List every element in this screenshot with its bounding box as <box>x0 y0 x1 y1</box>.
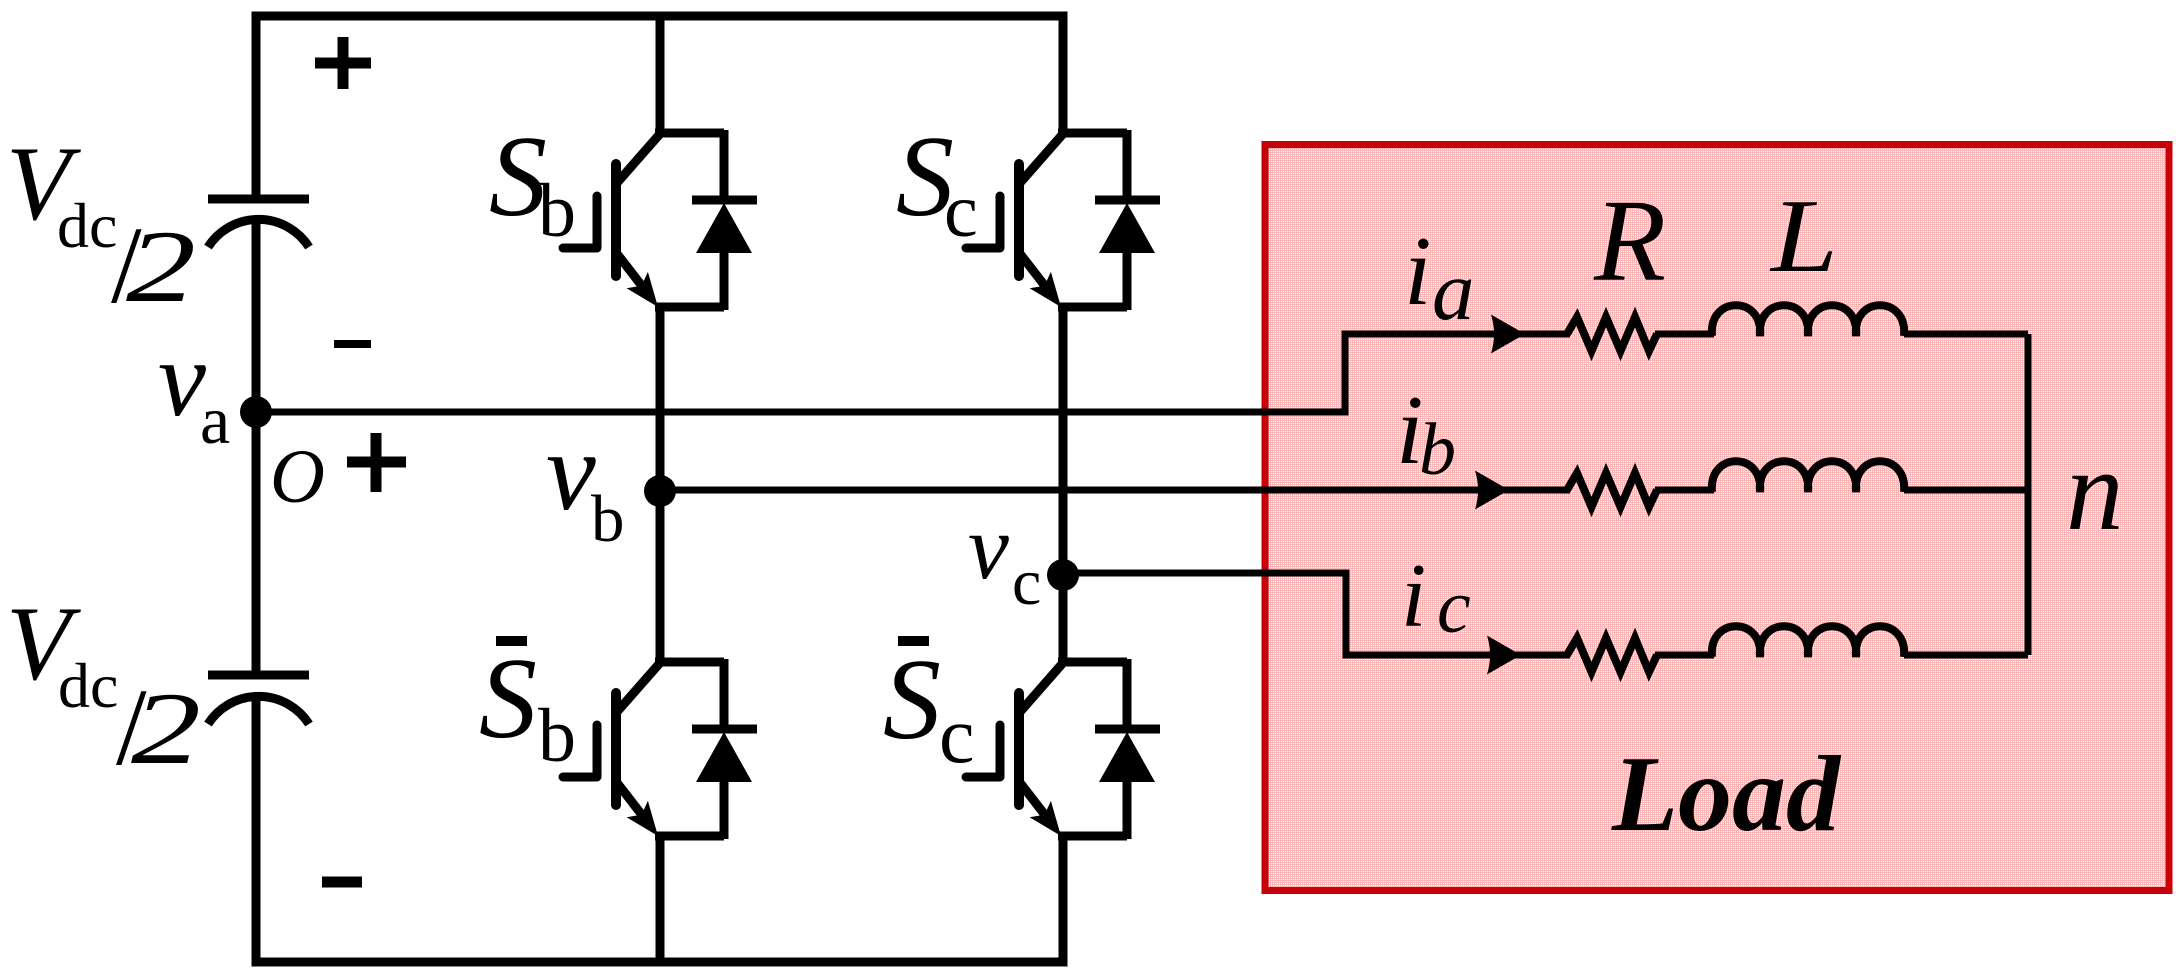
diode D2 (antiparallel, top leg c) <box>1095 130 1160 310</box>
svg-text:i: i <box>1401 545 1426 646</box>
resistor R (phase b) <box>1567 473 1657 507</box>
wire: phase b output <box>660 487 1570 494</box>
transistor Sb (IGBT top leg b) <box>563 133 724 307</box>
wire: neutral vertical <box>2025 334 2032 655</box>
load box <box>1265 145 2169 891</box>
wire <box>1904 652 2028 659</box>
inductor L (phase b) <box>1712 461 1904 492</box>
transistor Sc-bar (IGBT bottom leg c) <box>966 662 1127 836</box>
svg-text:b: b <box>538 694 576 778</box>
svg-text:a: a <box>200 382 230 458</box>
wire: leg1 bottom stub <box>656 835 665 962</box>
svg-text:b: b <box>538 169 576 253</box>
svg-text:2: 2 <box>131 672 201 786</box>
svg-text:v: v <box>968 496 1009 598</box>
wire: leg1 middle <box>656 307 665 662</box>
svg-text:S: S <box>479 635 537 763</box>
wire <box>1904 487 2028 494</box>
svg-text:dc: dc <box>58 650 118 721</box>
svg-text:L: L <box>1769 177 1838 294</box>
minus sign (top capacitor -) <box>334 340 371 348</box>
arrow ic <box>1487 636 1521 675</box>
svg-text:c: c <box>944 169 978 253</box>
svg-text:c: c <box>1437 565 1471 649</box>
label Sc-bar <box>898 636 929 646</box>
wire: phase c output <box>1063 573 1570 655</box>
plus sign (bottom capacitor +) <box>347 433 406 492</box>
svg-text:Load: Load <box>1611 735 1842 854</box>
resistor R (phase a) <box>1567 317 1657 351</box>
capacitor C2 flat plate <box>208 671 309 680</box>
node vb <box>644 475 676 507</box>
wire: leg1 top stub <box>656 16 665 133</box>
wire: left rail lower + bottom rail + leg2 bottom stub <box>256 694 1063 962</box>
capacitor C1 flat plate <box>208 195 309 204</box>
svg-text:n: n <box>2066 427 2124 554</box>
svg-text:i: i <box>1404 217 1432 326</box>
svg-text:S: S <box>883 636 941 764</box>
svg-text:R: R <box>1593 175 1666 306</box>
arrow ia <box>1491 315 1525 354</box>
wire: phase a output <box>256 334 1570 412</box>
diode D1 (antiparallel, top leg b) <box>692 130 757 310</box>
svg-text:c: c <box>939 692 975 780</box>
wire: top rail and left rail upper segment <box>256 16 1063 199</box>
svg-text:b: b <box>591 482 625 556</box>
wire <box>1655 331 1714 338</box>
wire: leg2 middle <box>1059 307 1068 662</box>
capacitor C2 curved plate <box>208 696 309 724</box>
svg-text:v: v <box>158 320 206 439</box>
transistor Sb-bar (IGBT bottom leg b) <box>563 662 724 836</box>
wire <box>1655 652 1714 659</box>
svg-text:O: O <box>270 435 325 519</box>
diode D3 (antiparallel, bottom leg b) <box>692 659 757 839</box>
svg-text:b: b <box>1419 409 1456 491</box>
svg-text:dc: dc <box>57 190 117 261</box>
svg-text:c: c <box>1012 546 1041 619</box>
inductor L (phase a) <box>1712 305 1904 336</box>
label Sb-bar <box>496 636 527 646</box>
arrow ib <box>1475 471 1509 510</box>
inductor L (phase c) <box>1712 626 1904 657</box>
diode D4 (antiparallel, bottom leg c) <box>1095 659 1160 839</box>
wire: left rail middle segment <box>252 218 261 675</box>
plus sign (top capacitor +) <box>315 37 371 89</box>
capacitor C1 curved plate <box>208 219 309 247</box>
transistor Sc (IGBT top leg c) <box>966 133 1127 307</box>
svg-text:v: v <box>546 410 596 534</box>
svg-text:2: 2 <box>126 210 196 324</box>
svg-text:a: a <box>1432 244 1475 338</box>
resistor R (phase c) <box>1567 638 1657 672</box>
wire <box>1655 487 1714 494</box>
wire <box>1904 331 2028 338</box>
minus sign (bottom capacitor -) <box>322 877 362 888</box>
node vc <box>1047 559 1079 591</box>
node va <box>240 396 272 428</box>
